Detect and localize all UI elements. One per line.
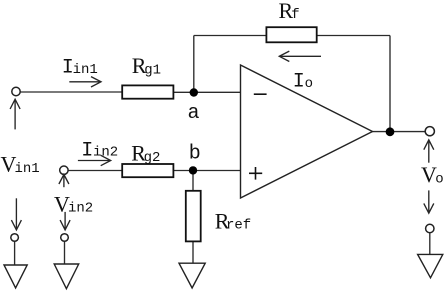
svg-text:o: o — [435, 171, 443, 187]
svg-text:g1: g1 — [144, 63, 161, 79]
svg-text:f: f — [291, 7, 299, 23]
svg-text:in1: in1 — [15, 161, 40, 177]
svg-text:a: a — [188, 102, 200, 125]
svg-text:in2: in2 — [93, 145, 118, 161]
svg-text:in2: in2 — [68, 201, 93, 217]
svg-text:I: I — [293, 71, 305, 94]
svg-text:in1: in1 — [73, 62, 98, 78]
svg-text:b: b — [189, 143, 201, 166]
svg-text:I: I — [81, 139, 93, 162]
svg-text:g2: g2 — [144, 150, 161, 166]
svg-text:o: o — [305, 76, 313, 92]
svg-text:ref: ref — [226, 218, 251, 234]
